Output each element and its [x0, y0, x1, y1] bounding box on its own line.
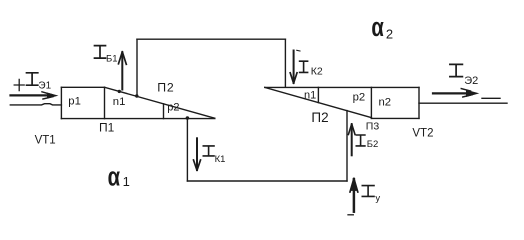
arrow current I_Э1 shaft [11, 94, 49, 96]
wire top link horizontal [137, 38, 285, 40]
label coefficient alpha1 [108, 162, 121, 191]
current symbol I of I_у [362, 186, 374, 197]
node dot top link tap on slope [135, 94, 138, 97]
svg-text:α: α [108, 162, 121, 191]
junction П2 slope line n1/p2 of VT1 [105, 87, 215, 118]
current symbol I of I_Б1 [95, 46, 106, 59]
arrow current I_Э2 lower fin [463, 95, 472, 97]
VT2 n1 region divider [317, 87, 319, 102]
arrow current I_Э2 upper fin [461, 89, 470, 91]
svg-text:у: у [375, 193, 380, 204]
junction П3 divider p2/n2 [370, 87, 372, 118]
arrow current I_К1 head [194, 160, 201, 170]
arrow current I_Э1 upper fin [42, 92, 52, 95]
arrow current I_К2 head [290, 73, 297, 83]
svg-text:К2: К2 [311, 66, 323, 78]
junction П1 divider p1/n1 [104, 87, 106, 118]
current symbol I of I_Э1 [27, 73, 38, 85]
svg-text:α: α [371, 12, 384, 41]
arrow current I_Э2 head [467, 90, 478, 96]
arrow current I_у head [350, 179, 358, 192]
wire top link vertical from VT1 base slope [136, 39, 138, 96]
wire VT1 collector lead down [186, 118, 188, 181]
svg-text:n1: n1 [113, 96, 126, 108]
dash below I_у [348, 214, 353, 216]
svg-text:p2: p2 [167, 102, 179, 114]
wire top link vertical down to VT2 collector tip [284, 39, 286, 87]
svg-text:Э2: Э2 [464, 75, 478, 87]
wire VT2 emitter lead right [419, 102, 507, 104]
svg-text:p2: p2 [353, 91, 366, 103]
svg-text:П3: П3 [366, 121, 380, 133]
arrow current I_К2 down [293, 51, 295, 83]
node dot collector tap on VT1 bottom edge [186, 116, 190, 120]
svg-text:VT2: VT2 [412, 128, 433, 140]
arrow current I_Б2 head [348, 124, 355, 135]
current symbol I of I_К1 [203, 146, 214, 156]
arrow current I_Э1 head [48, 93, 57, 98]
svg-text:П2: П2 [311, 110, 328, 125]
svg-text:p1: p1 [68, 96, 81, 108]
transistor VT2 right edge (n2) [418, 87, 420, 118]
junction П2 slope line of VT2 [265, 87, 372, 117]
arrow current I_Э1 lower fin [43, 97, 53, 99]
dash minus near I_Э2 [482, 97, 500, 99]
arrow current I_К1 down [196, 138, 198, 170]
tick near I_К2 [297, 49, 300, 52]
current symbol I of I_Б2 [356, 135, 365, 146]
arrow current I_Б1 up [121, 53, 123, 90]
arrow current I_Э2 shaft [433, 92, 466, 94]
svg-text:Б2: Б2 [367, 139, 379, 150]
transistor VT2 n2 bottom edge [371, 117, 419, 119]
svg-text:П1: П1 [99, 121, 115, 135]
transistor VT1 emitter box top edge (p1) [61, 86, 104, 88]
current symbol I of I_К2 [300, 61, 308, 72]
label coefficient alpha2 [371, 12, 384, 41]
svg-text:П2: П2 [157, 81, 174, 95]
arrow current I_у up (control) [353, 179, 356, 212]
arrow current I_Б1 head [119, 52, 127, 65]
svg-text:1: 1 [123, 174, 130, 189]
plus sign at I_Э1 [14, 79, 24, 90]
svg-text:VT1: VT1 [35, 135, 56, 147]
svg-text:Э1: Э1 [38, 80, 51, 91]
arrow current I_Б2 up [351, 125, 353, 156]
transistor VT2 top edge [265, 86, 419, 88]
svg-text:Б1: Б1 [106, 53, 118, 64]
svg-text:n2: n2 [379, 97, 392, 109]
wire emitter return line with bump [10, 104, 61, 105]
VT1 p2 region divider [163, 104, 165, 119]
node dot I_Б1 tap on slope [118, 90, 121, 93]
svg-text:К1: К1 [215, 154, 226, 165]
svg-text:n1: n1 [304, 90, 316, 102]
svg-text:2: 2 [386, 26, 393, 41]
transistor VT1 left edge [60, 87, 62, 118]
wire bottom rail [187, 180, 347, 182]
transistor VT1 bottom edge [61, 118, 214, 120]
wire VT2 base lead down [346, 111, 348, 181]
current symbol I of I_Э2 [450, 64, 463, 76]
